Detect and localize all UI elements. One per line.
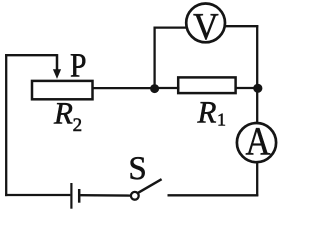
wire: ammeter top lead	[256, 90, 258, 123]
svg-text:V: V	[193, 6, 219, 48]
svg-text:R: R	[197, 94, 217, 129]
wire: left node to R1	[154, 87, 180, 89]
wire: R1 to right node	[234, 87, 259, 89]
resistor R1	[178, 77, 235, 93]
svg-text:S: S	[128, 151, 146, 187]
rheostat R2	[32, 81, 93, 99]
svg-text:A: A	[246, 119, 271, 164]
battery	[71, 183, 79, 209]
wire: voltmeter right horizontal	[225, 25, 258, 27]
junction node right	[253, 84, 262, 93]
wire: top-left horizontal	[5, 54, 57, 56]
svg-text:R: R	[53, 95, 73, 130]
svg-text:2: 2	[73, 115, 83, 136]
wire: ammeter bottom lead	[256, 163, 258, 196]
wire: left node to voltmeter (vertical)	[153, 27, 155, 91]
wire: switch to ammeter (bottom-right horizontal)	[168, 194, 259, 196]
svg-text:1: 1	[217, 110, 226, 130]
wire: left vertical	[5, 54, 7, 196]
slider P arrow	[53, 54, 61, 79]
switch S	[131, 179, 162, 200]
wire: battery to switch	[80, 194, 130, 197]
wire: rheostat R2 to left node	[92, 87, 155, 89]
voltmeter V	[186, 4, 225, 49]
wire: voltmeter left horizontal	[154, 26, 188, 28]
ammeter A	[237, 119, 276, 164]
wire: voltmeter to right node (vertical)	[256, 25, 258, 89]
label R1	[197, 94, 227, 129]
svg-text:P: P	[70, 47, 87, 84]
junction node left	[150, 84, 159, 93]
wire: bottom-left horizontal	[5, 194, 70, 196]
label R2	[53, 95, 82, 136]
